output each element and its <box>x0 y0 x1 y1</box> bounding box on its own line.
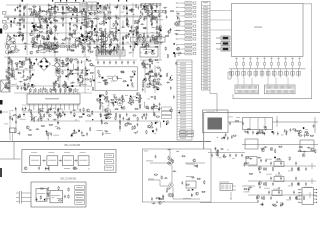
capacitor C389 <box>235 154 237 158</box>
resistor R245 <box>141 47 145 48</box>
capacitor C85 <box>126 6 128 10</box>
resistor R231 <box>147 12 148 16</box>
label text <box>232 157 234 160</box>
diode D7 <box>137 26 139 30</box>
label text <box>16 24 19 27</box>
wire <box>4 15 162 17</box>
capacitor C346 <box>175 62 177 66</box>
resistor R54 <box>122 46 123 50</box>
capacitor C340 <box>128 117 130 121</box>
resistor R46 <box>91 31 92 35</box>
capacitor C341 <box>145 116 147 120</box>
capacitor C229 <box>144 44 146 48</box>
wire <box>23 6 25 28</box>
resistor R364 <box>87 115 91 116</box>
electrolytic capacitor C122 <box>10 50 12 54</box>
resistor R45 <box>76 19 77 23</box>
resistor R29 <box>40 88 41 92</box>
resistor R418 <box>298 151 302 152</box>
connector pin pad <box>194 38 196 40</box>
electrolytic capacitor C348 <box>170 28 172 32</box>
electrolytic capacitor C120 <box>22 38 24 42</box>
resistor R274 <box>21 64 25 65</box>
connector CN2 pin <box>177 75 192 77</box>
junction <box>17 132 20 135</box>
connector CN1 pin <box>202 84 211 86</box>
wire <box>210 29 232 31</box>
wire <box>30 120 80 122</box>
resistor R50 <box>137 20 138 24</box>
diode D6 <box>91 25 93 29</box>
capacitor C207 <box>142 12 144 16</box>
electrolytic capacitor C161 <box>96 45 98 49</box>
resistor R178 <box>109 50 110 54</box>
inductor L4 <box>19 19 21 21</box>
electrolytic capacitor C115 <box>14 8 16 12</box>
capacitor C159 <box>85 30 87 34</box>
capacitor C402 <box>64 195 66 199</box>
capacitor C440 <box>293 191 295 195</box>
wire <box>210 10 232 12</box>
capacitor C220 <box>159 42 163 44</box>
resistor R203 <box>145 9 146 13</box>
resistor R87 <box>48 36 49 40</box>
resistor R247 <box>128 33 129 37</box>
resistor R331 <box>104 99 108 100</box>
electrolytic capacitor C3 <box>70 17 72 21</box>
transistor Q24 <box>89 12 92 15</box>
wire <box>59 57 61 93</box>
resistor R412 <box>292 129 296 130</box>
resistor R113 <box>51 44 55 45</box>
label text <box>48 151 54 154</box>
capacitor C411 <box>187 189 191 191</box>
capacitor C48 <box>97 61 99 65</box>
diode D74 <box>105 118 107 119</box>
electrolytic capacitor C273 <box>55 80 57 84</box>
resistor R117 <box>44 44 48 45</box>
capacitor C75 <box>69 37 71 41</box>
resistor R153 <box>95 18 99 19</box>
electrolytic capacitor C188 <box>72 13 74 17</box>
resistor R39 <box>23 12 24 16</box>
resistor array RN2 <box>145 3 148 5</box>
label text <box>242 57 244 60</box>
diode D66 <box>115 101 117 103</box>
resistor R330 <box>154 96 155 100</box>
resistor R461 <box>158 199 162 200</box>
wire <box>52 83 58 85</box>
label text <box>16 116 19 119</box>
resistor R277 <box>57 77 58 81</box>
capacitor C321 <box>81 135 85 137</box>
capacitor C235 <box>136 33 138 37</box>
resistor R3 <box>54 17 55 21</box>
resistor R124 <box>54 51 58 52</box>
wire <box>172 187 174 199</box>
connector CN3 pin <box>82 19 86 21</box>
bridge rectifier D1-D4 <box>38 58 51 71</box>
wire <box>140 59 162 61</box>
resistor R26 <box>120 71 124 72</box>
capacitor C145 <box>53 10 57 12</box>
label text <box>275 174 282 177</box>
capacitor C246 <box>20 61 24 63</box>
transistor Q27 <box>154 17 157 20</box>
resistor R92 <box>57 41 58 45</box>
transistor Q1 <box>104 82 107 85</box>
connector CN1 pin <box>202 79 211 81</box>
transistor Q14 <box>50 13 53 16</box>
diode D32 <box>118 29 120 31</box>
resistor R446 <box>197 178 201 179</box>
IC U61 <box>274 177 284 182</box>
resistor R444 <box>204 180 205 184</box>
diode D27 <box>31 23 33 24</box>
resistor R368 <box>79 116 83 117</box>
connector CN1 body <box>202 2 211 91</box>
label text <box>129 51 132 54</box>
capacitor C67 <box>39 20 41 24</box>
wire <box>292 57 294 63</box>
wire <box>257 57 259 63</box>
label text <box>109 31 112 34</box>
wire <box>243 57 245 63</box>
connector CN1 pin <box>202 14 211 16</box>
electrolytic capacitor C434 <box>297 182 299 186</box>
label text <box>178 54 180 57</box>
wire <box>151 6 153 28</box>
connector CN1 pin <box>202 71 211 73</box>
resistor R86 <box>34 9 35 13</box>
resistor R346 <box>110 99 114 100</box>
resistor R419 <box>315 149 316 153</box>
label text <box>124 14 126 17</box>
capacitor C449 <box>260 204 264 206</box>
label text <box>4 123 8 126</box>
resistor R447 <box>186 184 190 185</box>
capacitor C435 <box>256 196 258 200</box>
capacitor C215 <box>148 44 150 48</box>
resistor R177 <box>113 23 114 27</box>
capacitor C287 <box>142 88 144 92</box>
resistor R79 <box>51 42 55 43</box>
connector pin pad <box>194 11 196 13</box>
connector CN2 body <box>177 60 192 140</box>
capacitor C106 <box>29 70 31 74</box>
net label N7 <box>182 29 193 32</box>
resistor R213 <box>128 23 129 27</box>
resistor R222 <box>126 34 127 38</box>
junction <box>144 8 147 11</box>
capacitor C171 <box>115 15 117 19</box>
capacitor C169 <box>88 31 92 33</box>
resistor R290 <box>90 78 91 82</box>
connector CN2 pin <box>177 67 192 69</box>
connector CN1 pin <box>202 63 211 65</box>
resistor R14 <box>74 6 75 10</box>
capacitor C153 <box>53 51 57 53</box>
capacitor C240 <box>143 27 147 29</box>
junction <box>21 21 24 24</box>
resistor R300 <box>69 70 73 71</box>
resistor R282 <box>54 84 55 88</box>
connector CN1 pin <box>202 46 211 48</box>
resistor R301 <box>90 72 94 73</box>
transistor Q77 <box>257 196 260 199</box>
wire <box>46 20 48 42</box>
wire <box>91 20 93 42</box>
label text <box>104 129 106 132</box>
connector CN1 pin <box>202 82 211 84</box>
capacitor C59 <box>57 8 59 12</box>
junction <box>178 73 181 76</box>
resistor R420 <box>261 148 265 149</box>
transistor Q22 <box>116 47 119 50</box>
IC U6 <box>140 47 158 57</box>
electrolytic capacitor C112 <box>139 94 141 98</box>
capacitor C56 <box>104 79 108 81</box>
wire <box>287 78 289 86</box>
resistor R162 <box>83 49 84 53</box>
capacitor C419 <box>305 167 307 171</box>
wire <box>47 134 49 140</box>
capacitor C277 <box>69 72 71 76</box>
label text <box>266 158 272 161</box>
resistor R342 <box>99 103 103 104</box>
resistor R413 <box>298 135 302 136</box>
wire <box>54 5 56 57</box>
resistor R96 <box>53 26 57 27</box>
diode D59 <box>157 89 159 90</box>
transistor Q54 <box>87 109 90 112</box>
resistor R398 <box>174 53 175 57</box>
capacitor C310 <box>53 119 57 121</box>
capacitor C152 <box>44 18 48 20</box>
electrolytic capacitor C399 <box>45 167 47 171</box>
connector CN3 pin <box>82 11 86 13</box>
resistor R85 <box>29 15 33 16</box>
capacitor C276 <box>70 88 72 92</box>
connector CN2 pin <box>177 124 192 126</box>
diode D42 <box>128 34 129 36</box>
label text <box>30 115 32 118</box>
resistor R399 <box>167 73 168 77</box>
junction <box>170 74 173 77</box>
label text <box>41 48 44 51</box>
label text <box>183 197 191 200</box>
label text <box>17 61 20 64</box>
resistor R287 <box>65 82 66 86</box>
junction <box>34 9 37 12</box>
resistor R235 <box>126 18 127 22</box>
junction <box>176 150 179 153</box>
label text <box>61 59 64 62</box>
resistor R181 <box>102 41 106 42</box>
resistor R68 <box>17 32 21 33</box>
capacitor C97 <box>89 41 91 45</box>
diode D12 <box>103 44 105 46</box>
transformer T2 core <box>1 80 10 92</box>
capacitor C295 <box>110 102 114 104</box>
wire <box>2 111 8 113</box>
capacitor C206 <box>83 25 87 27</box>
capacitor C36 <box>61 6 63 10</box>
resistor row R20 <box>72 45 76 47</box>
electrolytic capacitor C138 <box>44 18 46 22</box>
SAW filter Z1 <box>203 110 229 133</box>
capacitor C16 <box>109 45 111 49</box>
label text <box>29 85 32 88</box>
capacitor C170 <box>99 50 103 52</box>
resistor R278 <box>58 70 59 74</box>
capacitor C239 <box>149 39 151 43</box>
resistor R352 <box>129 98 130 102</box>
capacitor C13 <box>68 45 70 49</box>
net label <box>162 111 172 114</box>
resistor R360 <box>38 110 42 111</box>
connector pin pad <box>194 29 196 31</box>
resistor R357 <box>44 113 45 117</box>
capacitor C154 <box>33 11 35 15</box>
resistor R107 <box>54 6 58 7</box>
resistor R385 <box>100 113 101 117</box>
resistor R42 <box>62 6 63 10</box>
electrolytic capacitor C12 <box>50 45 52 49</box>
resistor R313 <box>144 63 145 67</box>
resistor R116 <box>48 9 52 10</box>
capacitor C143 <box>54 47 58 49</box>
transistor Q18 <box>99 28 102 31</box>
label text <box>263 57 265 60</box>
IC U70 pin <box>299 194 317 197</box>
capacitor C332 <box>122 117 124 121</box>
resistor array RN1 <box>163 10 166 12</box>
resistor R106 <box>38 45 42 46</box>
junction <box>116 44 119 47</box>
capacitor C155 <box>91 33 93 37</box>
electrolytic capacitor C308 <box>11 117 13 121</box>
diode D28 <box>88 32 90 33</box>
capacitor C409 <box>166 189 168 193</box>
diode D13 <box>77 66 79 70</box>
capacitor C259 <box>71 82 75 84</box>
resistor R173 <box>80 39 81 43</box>
capacitor C417 <box>265 167 267 171</box>
connector CN2 pin <box>177 132 192 134</box>
ferrite bead <box>236 63 238 66</box>
resistor R120 <box>38 10 39 14</box>
connector CN1 pin <box>202 25 211 27</box>
capacitor C261 <box>80 72 84 74</box>
electrolytic capacitor C228 <box>130 45 132 49</box>
capacitor C268 <box>85 71 87 75</box>
crystal X1 <box>216 36 230 40</box>
wire <box>147 51 153 53</box>
diode D63 <box>100 99 101 100</box>
electrolytic capacitor C100 <box>67 62 69 66</box>
wire <box>159 3 161 60</box>
diode D4 <box>69 22 71 26</box>
connector P1 body <box>19 191 21 204</box>
resistor R229 <box>155 36 159 37</box>
resistor R248 <box>159 27 160 31</box>
resistor R197 <box>105 28 106 32</box>
connector CN2 pin <box>177 110 192 112</box>
wire <box>64 89 66 94</box>
net label N12 <box>182 52 193 55</box>
transistor Q73 <box>196 192 199 195</box>
transistor Q48 <box>104 108 107 111</box>
connector CN1 pin <box>202 11 211 13</box>
label text <box>11 65 13 68</box>
capacitor C1 <box>7 17 9 21</box>
resistor R146 <box>102 36 106 37</box>
resistor array RN1 <box>146 10 149 12</box>
capacitor C80 <box>103 11 105 15</box>
net label <box>105 160 114 164</box>
resistor R16 <box>123 6 124 10</box>
wire <box>68 38 70 44</box>
wire <box>107 35 109 41</box>
IC U60 <box>274 162 284 167</box>
diode D18 <box>25 48 26 49</box>
resistor array RN2 <box>158 3 161 5</box>
resistor R234 <box>141 9 145 10</box>
label text <box>37 192 45 195</box>
RC pair <box>297 69 301 78</box>
resistor R252 <box>17 86 18 90</box>
wire <box>14 128 16 134</box>
capacitor C257 <box>5 71 9 73</box>
connector CN1 pin <box>202 49 211 51</box>
resistor R32 <box>55 88 56 92</box>
resistor R333 <box>122 96 123 100</box>
resistor R294 <box>62 63 63 67</box>
label text <box>25 67 28 70</box>
resistor R391 <box>115 116 116 120</box>
transistor Q13 <box>52 48 55 51</box>
electrolytic capacitor C172 <box>73 8 75 12</box>
resistor R77 <box>32 6 36 7</box>
diode D9 <box>151 22 153 26</box>
capacitor C279 <box>64 64 68 66</box>
wire <box>59 89 61 94</box>
transistor Q34 <box>139 34 142 37</box>
wire <box>228 121 243 123</box>
resistor R442 <box>58 186 59 190</box>
capacitor C270 <box>81 60 83 64</box>
capacitor C312 <box>37 118 39 122</box>
resistor R210 <box>136 26 137 30</box>
resistor R372 <box>49 124 53 125</box>
resistor R440 <box>68 187 69 191</box>
electrolytic capacitor C33 <box>17 6 19 10</box>
electrolytic capacitor C5 <box>13 34 15 38</box>
connector CN1 pin <box>202 36 211 38</box>
capacitor C354 <box>242 122 244 126</box>
label text <box>125 94 128 97</box>
connector CN1 pin <box>202 6 211 8</box>
bridge rectifier D5-D8 <box>75 36 91 44</box>
electrolytic capacitor C118 <box>8 51 10 55</box>
resistor row R20 <box>33 45 37 47</box>
electrolytic capacitor C78 <box>91 20 93 24</box>
resistor R347 <box>122 95 123 99</box>
capacitor C388 <box>229 154 231 158</box>
capacitor C248 <box>23 74 25 78</box>
electrolytic capacitor C317 <box>25 107 27 111</box>
